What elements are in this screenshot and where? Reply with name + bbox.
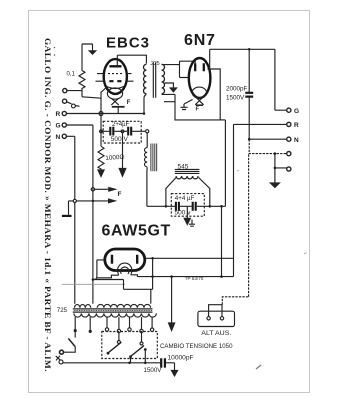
terminal 5 right xyxy=(287,167,291,171)
wire stage bottom line xyxy=(137,276,233,278)
wire R heater line xyxy=(66,113,144,115)
svg-text:2+4µF: 2+4µF xyxy=(112,122,130,128)
wire mains bottom xyxy=(63,362,160,364)
capacitor block 4+4uF 500V second xyxy=(147,194,226,217)
transformer T1 interstage xyxy=(144,61,165,98)
svg-text:F: F xyxy=(118,191,122,198)
lever 1 xyxy=(108,342,121,353)
lever 2 xyxy=(131,346,145,357)
scan specks xyxy=(54,47,56,49)
svg-text:R: R xyxy=(294,122,299,129)
terminal G xyxy=(62,123,66,127)
svg-text:4+4 µF: 4+4 µF xyxy=(175,195,195,202)
svg-text:EBC3: EBC3 xyxy=(106,35,150,52)
svg-text:G: G xyxy=(294,108,299,115)
antenna symbol top xyxy=(82,44,96,54)
secondary taps xyxy=(74,317,76,338)
terminal A1 xyxy=(63,89,67,93)
node B plus top wire xyxy=(210,48,275,50)
wire 6N7 plate top xyxy=(209,49,211,69)
svg-text:.225: .225 xyxy=(150,61,160,67)
wire T1 mid tap xyxy=(165,83,174,88)
svg-text:500 v: 500 v xyxy=(175,210,192,217)
svg-text:ALT AUS.: ALT AUS. xyxy=(201,330,231,337)
transformer T3 mains xyxy=(57,304,157,317)
ALT AUS box xyxy=(198,311,235,326)
terminal N right xyxy=(287,137,291,141)
svg-text:1500V: 1500V xyxy=(226,95,245,102)
svg-text:0,1: 0,1 xyxy=(67,72,76,78)
capacitor 2000pF xyxy=(248,49,250,92)
wire down with arrow xyxy=(171,277,173,323)
resistor 0.1 xyxy=(79,71,85,97)
svg-text:10000pF: 10000pF xyxy=(168,355,194,362)
svg-text:F: F xyxy=(196,107,200,113)
wire T2 top xyxy=(146,133,148,148)
svg-text:CAMBIO TENSIONE 1050: CAMBIO TENSIONE 1050 xyxy=(160,343,233,350)
wire tube right xyxy=(146,257,234,259)
wire T1 primary bottom to R line xyxy=(144,94,146,113)
ground arrow xyxy=(270,183,279,188)
svg-text:N: N xyxy=(294,137,299,144)
terminal R right xyxy=(287,122,291,126)
terminal A2 xyxy=(63,99,67,103)
wire xyxy=(275,49,287,110)
svg-text:2000pF: 2000pF xyxy=(226,86,248,93)
ground small near 6AW5GT xyxy=(189,220,195,227)
svg-text:R: R xyxy=(56,111,61,118)
svg-text:6N7: 6N7 xyxy=(184,32,216,49)
resistor 1000 ohm xyxy=(98,114,104,171)
wire center to ground xyxy=(186,206,188,218)
svg-text:GALLO ING. G. - CONDOR MOD. »: GALLO ING. G. - CONDOR MOD. » MEHARA - 1… xyxy=(43,38,53,372)
selector links xyxy=(118,333,120,341)
terminal N xyxy=(62,134,66,138)
capacitor 10000pF xyxy=(161,358,165,367)
ground bar xyxy=(62,215,72,217)
capacitor block 4+4uF 500V xyxy=(100,121,146,143)
tube 6AW5GT xyxy=(97,249,145,278)
svg-text:500 V: 500 V xyxy=(111,136,129,143)
wire faint fold line xyxy=(62,283,125,285)
tube EBC3 xyxy=(96,55,134,113)
voltage selector dashed box xyxy=(102,332,158,359)
wire down to bottom line xyxy=(221,206,223,276)
wire T1 secondary bottom / heater loop xyxy=(162,69,221,120)
svg-text:6AW5GT: 6AW5GT xyxy=(102,223,171,240)
border frame (decorative scan edge) xyxy=(29,11,310,393)
terminal 4 right xyxy=(287,152,291,156)
wire to ground left xyxy=(69,201,92,215)
node junction lower arrow xyxy=(92,200,95,203)
mains switch xyxy=(68,338,75,346)
wire xyxy=(66,136,74,303)
node crossing circle on N wire xyxy=(73,199,76,202)
node F on G wire xyxy=(91,188,94,191)
wire B plus vertical xyxy=(224,120,226,206)
terminal xyxy=(59,360,63,364)
svg-text:G: G xyxy=(56,123,61,130)
wire jagged xyxy=(249,139,287,153)
terminal R xyxy=(62,111,66,115)
wire down to transformer right xyxy=(152,258,154,289)
wire xyxy=(275,154,287,183)
transformer T2 output xyxy=(145,144,157,172)
choke 545 xyxy=(166,163,210,206)
wire xyxy=(67,91,101,99)
svg-text:N: N xyxy=(56,134,61,141)
wire jagged to top xyxy=(222,154,248,305)
ground 6N7 xyxy=(181,100,193,110)
wire to transformer right primary xyxy=(93,280,153,304)
wire cathode xyxy=(101,87,107,114)
svg-text:1000Ω: 1000Ω xyxy=(105,154,124,162)
wire xyxy=(81,44,83,71)
wire plate EBC3 to T1 xyxy=(117,55,146,63)
svg-text:1500V: 1500V xyxy=(144,367,163,374)
tube 6N7 xyxy=(189,58,211,113)
terminal G right xyxy=(287,108,291,112)
wire R xyxy=(234,124,287,276)
ground arrow xyxy=(119,169,126,177)
wire xyxy=(66,125,93,304)
svg-text:F: F xyxy=(127,100,131,106)
ground arrow xyxy=(184,218,190,224)
svg-text:725: 725 xyxy=(57,307,68,314)
ground arrow xyxy=(98,170,104,177)
pickup loop xyxy=(67,102,80,108)
wire tube left xyxy=(93,260,105,280)
wire T2 bottom xyxy=(146,167,148,206)
wire T1 secondary top to 6N7 xyxy=(162,61,194,77)
wire center tap to ground xyxy=(122,133,124,169)
wire N xyxy=(249,138,287,140)
ground arrow xyxy=(170,88,176,92)
